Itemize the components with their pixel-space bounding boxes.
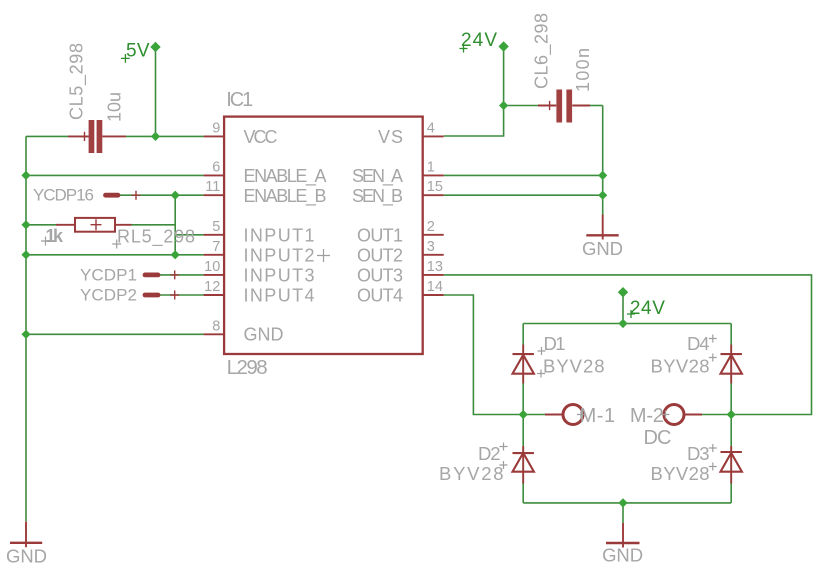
wire pin1 SEN_A bbox=[444, 174, 603, 176]
svg-text:1: 1 bbox=[427, 159, 435, 175]
svg-text:8: 8 bbox=[212, 318, 220, 334]
pin 2 stub bbox=[423, 234, 444, 236]
wire YCDP1 to pin10 bbox=[158, 274, 204, 276]
svg-text:INPUT3: INPUT3 bbox=[244, 265, 315, 285]
junction bus pin7 bbox=[21, 250, 30, 259]
junction YCDP16 bbox=[171, 191, 180, 200]
capacitor CL6_298 bbox=[538, 90, 590, 123]
wire bridge right vertical bbox=[730, 324, 732, 503]
wire SEN vertical to GND bbox=[602, 106, 604, 215]
svg-text:13: 13 bbox=[427, 259, 443, 275]
pin 11 stub bbox=[204, 194, 224, 196]
svg-text:6: 6 bbox=[212, 159, 220, 175]
wire resistor right bbox=[132, 224, 176, 226]
svg-text:D3: D3 bbox=[687, 443, 710, 464]
diode D2 value cross bbox=[500, 461, 508, 469]
svg-text:24V: 24V bbox=[461, 30, 497, 51]
wire 24V bridge stem bbox=[622, 292, 624, 323]
junction bridge top rail bbox=[618, 319, 627, 328]
svg-text:YCDP16: YCDP16 bbox=[33, 186, 94, 205]
ground GND bridge bbox=[602, 523, 643, 565]
svg-text:GND: GND bbox=[582, 238, 623, 259]
wire bridge GND stem bbox=[622, 503, 624, 523]
junction 24V cap line bbox=[499, 101, 508, 110]
svg-text:OUT4: OUT4 bbox=[357, 286, 403, 306]
wire M-2 right bbox=[702, 414, 731, 416]
supply 5V bbox=[121, 40, 150, 63]
junction bridge right M row bbox=[727, 410, 736, 419]
resistor name origin cross bbox=[112, 240, 121, 249]
wire pin13 OUT3 to bridge right bbox=[444, 275, 812, 415]
svg-text:INPUT4: INPUT4 bbox=[244, 286, 315, 306]
wire cap CL6 right bbox=[590, 105, 603, 107]
junction 24V bridge top bbox=[618, 287, 628, 297]
junction bridge left M row bbox=[519, 410, 528, 419]
svg-text:RL5_298: RL5_298 bbox=[117, 226, 195, 247]
svg-text:DC: DC bbox=[644, 427, 672, 449]
pin 14 stub bbox=[423, 294, 444, 296]
diode D1 value cross bbox=[537, 370, 545, 378]
net label YCDP16 bbox=[33, 186, 141, 205]
wire GND bus left vertical bbox=[25, 136, 27, 521]
wire YCDP16 to pin11 bbox=[119, 194, 204, 196]
wire pin8 GND bbox=[26, 333, 204, 335]
junction bridge bottom bbox=[618, 498, 627, 507]
wire pin6 ENABLE_A bbox=[26, 174, 204, 176]
svg-text:IC1: IC1 bbox=[226, 89, 253, 111]
wire pin4 VS to 24V bbox=[444, 46, 504, 136]
junction at 24V top bbox=[498, 41, 508, 51]
wire pin14 OUT4 to bridge left bbox=[444, 295, 524, 415]
resistor value origin cross bbox=[41, 237, 50, 246]
svg-text:OUT3: OUT3 bbox=[357, 265, 403, 285]
op IC1 box bbox=[224, 117, 423, 354]
pin 10 stub bbox=[204, 274, 224, 276]
wire vertical net x175 bbox=[174, 195, 176, 255]
svg-text:GND: GND bbox=[244, 325, 284, 345]
svg-text:24V: 24V bbox=[630, 298, 665, 319]
pin 6 stub bbox=[204, 174, 224, 176]
svg-text:2: 2 bbox=[427, 219, 435, 235]
wire YCDP2 to pin12 bbox=[158, 294, 204, 296]
svg-text:M-2: M-2 bbox=[630, 405, 664, 427]
svg-text:D2: D2 bbox=[478, 443, 501, 464]
svg-text:1k: 1k bbox=[46, 226, 64, 246]
svg-text:10u: 10u bbox=[104, 92, 124, 122]
svg-text:YCDP2: YCDP2 bbox=[80, 286, 137, 305]
wire 5V stem bbox=[155, 46, 157, 136]
svg-text:100n: 100n bbox=[573, 48, 593, 92]
svg-text:BYV28: BYV28 bbox=[543, 356, 605, 377]
svg-text:10: 10 bbox=[204, 259, 220, 275]
pad M-1 bbox=[545, 405, 585, 425]
wire pin5 INPUT1 bbox=[175, 234, 203, 236]
pin 7 stub bbox=[204, 254, 224, 256]
svg-text:D4: D4 bbox=[687, 333, 710, 354]
wire cap CL6 left bbox=[504, 105, 538, 107]
wire VCC line left bbox=[26, 135, 204, 137]
net label YCDP1 bbox=[80, 266, 179, 285]
IC origin cross bbox=[317, 249, 330, 262]
svg-text:VS: VS bbox=[378, 127, 403, 147]
diode D4 value cross bbox=[709, 354, 717, 362]
wire pin7 INPUT2 bbox=[26, 254, 204, 256]
svg-text:OUT1: OUT1 bbox=[357, 225, 403, 245]
pad M-2 bbox=[662, 405, 703, 425]
diode D2 name cross bbox=[500, 443, 508, 451]
diode D1 name cross bbox=[538, 347, 546, 355]
svg-text:SEN_A: SEN_A bbox=[352, 166, 403, 187]
junction bus resistor bbox=[21, 220, 30, 229]
junction SEN_A bbox=[598, 171, 607, 180]
svg-text:BYV28: BYV28 bbox=[651, 463, 710, 484]
supply 24V bridge bbox=[627, 298, 665, 319]
wire M-1 left bbox=[523, 414, 545, 416]
svg-text:INPUT1: INPUT1 bbox=[244, 225, 315, 245]
junction SEN_B bbox=[598, 191, 607, 200]
svg-text:CL5_298: CL5_298 bbox=[67, 43, 88, 120]
svg-text:GND: GND bbox=[6, 545, 47, 566]
svg-text:5: 5 bbox=[212, 219, 220, 235]
svg-text:VCC: VCC bbox=[244, 127, 278, 147]
pin 1 stub bbox=[423, 174, 444, 176]
svg-text:OUT2: OUT2 bbox=[357, 245, 403, 265]
ground GND sense bbox=[582, 215, 623, 260]
ground GND left bbox=[6, 522, 47, 567]
pin 15 stub bbox=[423, 194, 444, 196]
svg-text:11: 11 bbox=[205, 179, 220, 195]
junction net pin7 bbox=[171, 250, 180, 259]
svg-text:BYV28: BYV28 bbox=[439, 463, 504, 484]
pin 3 stub bbox=[423, 254, 444, 256]
svg-text:YCDP1: YCDP1 bbox=[80, 266, 137, 285]
diode D2 bbox=[513, 446, 534, 484]
junction bus pin8 bbox=[21, 330, 30, 339]
wire bridge left vertical bbox=[522, 324, 524, 503]
svg-text:GND: GND bbox=[602, 544, 643, 565]
svg-text:L298: L298 bbox=[227, 356, 268, 379]
diode D3 bbox=[721, 446, 742, 484]
pin 4 stub bbox=[423, 135, 444, 137]
svg-text:12: 12 bbox=[204, 279, 220, 295]
svg-text:D1: D1 bbox=[544, 333, 566, 354]
svg-text:BYV28: BYV28 bbox=[651, 356, 710, 377]
diode D3 name cross bbox=[709, 444, 717, 452]
svg-text:4: 4 bbox=[427, 120, 435, 136]
svg-text:14: 14 bbox=[427, 279, 443, 295]
wire resistor left bbox=[26, 224, 56, 226]
svg-text:SEN_B: SEN_B bbox=[352, 186, 403, 207]
wire bridge top rail bbox=[523, 323, 731, 325]
junction at 5V bbox=[150, 42, 160, 52]
junction VCC line bbox=[151, 132, 160, 141]
pin 5 stub bbox=[204, 234, 224, 236]
diode D4 bbox=[721, 345, 742, 384]
svg-text:9: 9 bbox=[212, 120, 220, 136]
diode D4 name cross bbox=[709, 335, 717, 343]
wire pin15 SEN_B bbox=[444, 194, 603, 196]
svg-text:INPUT2: INPUT2 bbox=[244, 245, 315, 265]
diode D1 bbox=[513, 345, 534, 384]
pin 13 stub bbox=[423, 274, 444, 276]
svg-text:CL6_298: CL6_298 bbox=[532, 13, 553, 89]
pin 8 stub bbox=[204, 333, 224, 335]
supply 24V top bbox=[460, 30, 498, 53]
wire bridge bottom rail bbox=[523, 502, 731, 504]
junction bus pin6 bbox=[21, 171, 30, 180]
pin 9 stub bbox=[204, 135, 224, 137]
capacitor CL5_298 bbox=[68, 120, 126, 153]
resistor RL5_298 bbox=[56, 218, 132, 232]
svg-text:7: 7 bbox=[212, 239, 220, 255]
svg-text:3: 3 bbox=[427, 239, 435, 255]
net label YCDP2 bbox=[80, 286, 179, 305]
pin 12 stub bbox=[204, 294, 224, 296]
svg-text:ENABLE_A: ENABLE_A bbox=[244, 166, 327, 187]
svg-text:15: 15 bbox=[427, 179, 443, 195]
diode D3 value cross bbox=[709, 463, 717, 471]
svg-text:M-1: M-1 bbox=[580, 405, 616, 427]
svg-text:ENABLE_B: ENABLE_B bbox=[244, 186, 327, 207]
